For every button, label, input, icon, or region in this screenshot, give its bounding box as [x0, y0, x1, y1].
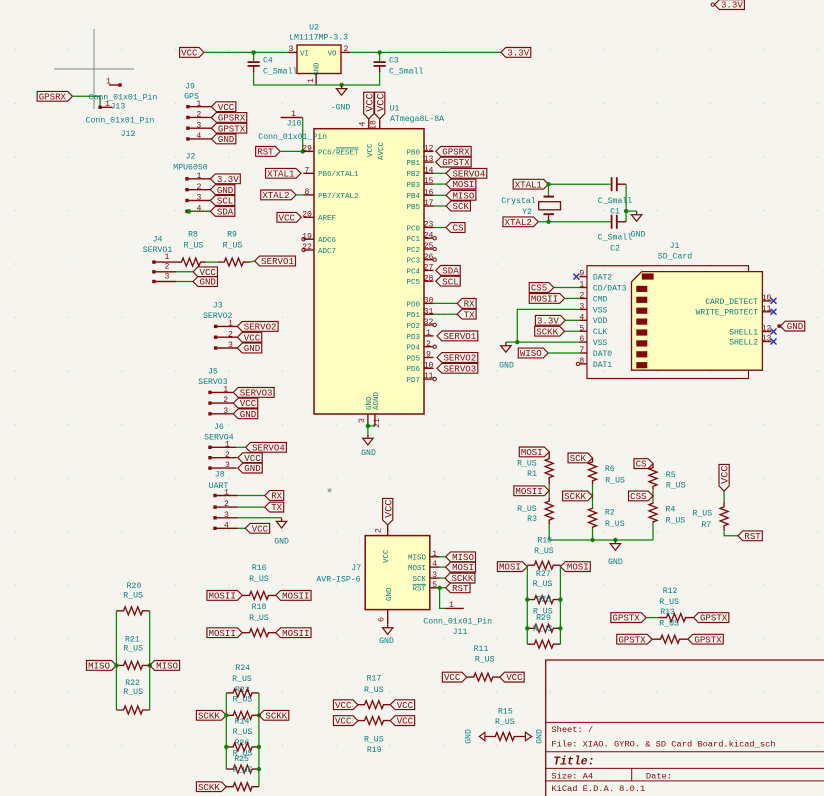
global label VCC (J5) [233, 398, 257, 409]
J2 pin 4 [185, 204, 211, 213]
svg-text:GPSRX: GPSRX [39, 91, 67, 102]
svg-text:R27: R27 [536, 570, 551, 579]
svg-text:PC5: PC5 [406, 279, 420, 287]
connector J2 reference [186, 153, 196, 162]
svg-text:CS5: CS5 [531, 283, 547, 294]
svg-text:R_US: R_US [249, 575, 269, 584]
global label MOSII (SD) [529, 294, 564, 305]
resistor R21 value [123, 645, 143, 654]
junction XTAL1 [546, 182, 550, 186]
svg-text:Conn_01x01_Pin: Conn_01x01_Pin [86, 115, 155, 125]
J5 pin 3 [208, 407, 233, 416]
connector J11 name [453, 628, 468, 637]
resistor R12 [659, 614, 694, 622]
resistor R8 [176, 231, 206, 267]
SD card outline box [587, 266, 749, 379]
resistor R10 value [534, 547, 554, 556]
U1 pin 17 PB5 [406, 199, 446, 212]
connector J12 value Conn_01x01_Pin [86, 115, 155, 125]
wire R5 to R4 [652, 490, 654, 502]
resistor R16 reference [252, 564, 267, 573]
U1 pin 30 PD0 [406, 297, 457, 310]
svg-text:PB1: PB1 [406, 160, 420, 168]
svg-text:8: 8 [305, 188, 310, 197]
U1 pin 14 PB2 [406, 166, 446, 179]
svg-text:19: 19 [302, 232, 312, 241]
global label VCC (R11 right) [500, 672, 524, 683]
svg-text:CS: CS [452, 223, 463, 234]
svg-text:MISO: MISO [156, 661, 178, 672]
J1 pin 7 DAT0 [579, 346, 612, 359]
svg-text:3: 3 [289, 45, 294, 54]
svg-text:R12: R12 [663, 587, 678, 596]
wire U2 gnd bus [254, 72, 380, 85]
wire pullup gnd bus [549, 539, 653, 541]
IC U1 reference [389, 104, 399, 113]
svg-text:GPSRX: GPSRX [218, 113, 246, 124]
svg-text:SCKK: SCKK [198, 710, 220, 721]
J7 pin 1 MISO [408, 550, 446, 563]
svg-text:Date:: Date: [646, 772, 672, 782]
global label MOSI (cluster right) [560, 562, 590, 573]
J6 pin 2 [208, 451, 236, 460]
svg-text:25: 25 [424, 242, 434, 251]
svg-text:1: 1 [228, 320, 233, 329]
svg-text:-GND: -GND [331, 104, 351, 113]
svg-text:MOSI: MOSI [452, 179, 474, 190]
ground symbol SD [501, 342, 511, 352]
global label MOSII (pullup) [514, 486, 549, 497]
U1 pin 4 VCC [359, 119, 376, 157]
resistor R17 [358, 701, 390, 709]
capacitor C4 [248, 52, 298, 76]
wire sckk left rail [225, 693, 227, 769]
svg-text:13: 13 [762, 335, 772, 344]
svg-text:16: 16 [424, 188, 434, 197]
svg-text:MOSII: MOSII [515, 486, 542, 497]
svg-text:3: 3 [432, 571, 437, 580]
svg-text:CS: CS [636, 459, 647, 470]
svg-text:R7: R7 [701, 521, 711, 530]
U1 pin 22 ADC7 [302, 243, 336, 256]
svg-text:R20: R20 [127, 582, 142, 591]
connector J13 value Conn_01x01_Pin [89, 93, 158, 103]
U1 pin 31 PD1 [406, 307, 457, 320]
svg-text:R_US: R_US [533, 625, 553, 634]
power label 3.3V (U2 output) [501, 48, 531, 59]
svg-text:SHELL2: SHELL2 [729, 338, 758, 347]
connector J13 name [111, 103, 126, 112]
svg-text:SDA: SDA [217, 206, 234, 217]
svg-text:GND: GND [240, 409, 256, 420]
resistor R26 value [233, 749, 253, 758]
U1 pin 21 AGND [373, 391, 382, 427]
global label MOSII (R16 right) [276, 591, 311, 602]
svg-text:PB0: PB0 [406, 149, 420, 157]
J5 pin 2 [208, 396, 233, 405]
svg-text:R_US: R_US [605, 520, 625, 529]
SD card body [632, 272, 763, 371]
J9 pin 1 [186, 100, 211, 109]
svg-text:4: 4 [196, 132, 201, 141]
resistor R22 value [123, 688, 143, 697]
svg-text:C4: C4 [263, 56, 273, 65]
ground text SD [499, 362, 514, 371]
svg-text:TX: TX [464, 309, 475, 320]
J1 pin 2 CMD [579, 292, 607, 305]
junction sckk l2 [224, 745, 228, 749]
U1 pin 3 GND [358, 396, 374, 426]
global label MISO (J7 MISO) [446, 552, 476, 563]
svg-text:R2: R2 [605, 509, 615, 518]
connector J4 reference [153, 236, 163, 245]
svg-text:WRITE_PROTECT: WRITE_PROTECT [696, 309, 759, 318]
connector J11 pin 1 [445, 601, 464, 610]
global label TX (U1 PD1) [457, 309, 476, 320]
svg-text:RX: RX [464, 299, 475, 310]
resistor R27 value [533, 580, 553, 589]
global label GND (SD shell) [778, 321, 805, 332]
global label VCC (R19 left) [333, 716, 357, 727]
power label 3.3V top-right [711, 0, 744, 11]
svg-text:GPSTX: GPSTX [618, 634, 646, 645]
svg-text:R_US: R_US [233, 696, 253, 705]
svg-text:3.3V: 3.3V [217, 174, 239, 185]
svg-text:RST: RST [744, 531, 761, 542]
resistor R24 value [232, 675, 252, 684]
connector J13 pin 1 [106, 78, 122, 87]
svg-text:SCK: SCK [412, 576, 426, 584]
svg-text:CSS: CSS [630, 491, 647, 502]
global label SCL (J2) [210, 196, 234, 207]
global label MOSI (pullup) [519, 447, 549, 458]
svg-text:R6: R6 [605, 465, 615, 474]
svg-text:1: 1 [307, 78, 316, 83]
svg-text:SERVO2: SERVO2 [244, 322, 277, 333]
svg-text:VCC: VCC [397, 716, 414, 727]
J1 pin 5 CLK [579, 324, 607, 337]
cursor crosshair [54, 29, 134, 109]
svg-text:R_US: R_US [666, 482, 686, 491]
wire XTAL1 to C1 [549, 183, 611, 185]
J1 pin 11 WRITE_PROTECT [696, 305, 777, 318]
svg-text:PC2: PC2 [406, 247, 420, 255]
resistor R11 value [475, 656, 495, 665]
J1 pin 3 VSS [579, 303, 607, 316]
global label MOSII (R16 left) [207, 591, 242, 602]
svg-text:27: 27 [424, 264, 434, 273]
svg-text:18: 18 [369, 120, 378, 130]
global label VCC (U1 AREF) [277, 212, 301, 223]
wire to crystal gnd [626, 210, 637, 212]
IC U1 value ATmega8L-8A [390, 115, 444, 124]
svg-text:R17: R17 [367, 675, 382, 684]
J6 pin 3 [208, 461, 236, 470]
global label RST (R7) [738, 531, 762, 542]
global label GND (R15 left) [465, 729, 490, 744]
svg-text:R22: R22 [125, 679, 140, 688]
svg-text:R_US: R_US [517, 505, 537, 514]
svg-text:PD0: PD0 [406, 301, 420, 309]
svg-text:DAT0: DAT0 [593, 350, 612, 359]
svg-text:RST: RST [412, 586, 426, 594]
U1 pin 2 PD4 [406, 340, 436, 353]
svg-text:4: 4 [197, 204, 202, 213]
resistor R18 reference [252, 603, 267, 612]
svg-text:17: 17 [424, 199, 434, 208]
svg-text:VCC: VCC [397, 700, 414, 711]
svg-text:GND: GND [379, 637, 394, 646]
resistor R16 value [249, 575, 269, 584]
svg-text:6: 6 [579, 335, 584, 344]
resistor R26 reference [235, 739, 250, 748]
junction mosi r2 [558, 626, 562, 630]
connector J10 name [287, 119, 302, 128]
U1 pin 28 PC5 [406, 274, 433, 287]
IC U1 body [314, 129, 424, 414]
wire J7 RST to J11 [440, 588, 445, 609]
svg-text:SERVO1: SERVO1 [443, 331, 476, 342]
global label SCKK (J7 SCK) [445, 573, 475, 584]
svg-text:VSS: VSS [593, 339, 608, 348]
global label GPSTX (J9) [211, 123, 246, 134]
wire R4 to bus [652, 523, 654, 540]
connector J8 value UART [209, 482, 229, 491]
svg-text:TX: TX [271, 502, 282, 513]
svg-text:VCC: VCC [279, 212, 296, 223]
svg-text:6: 6 [377, 617, 386, 622]
svg-text:Conn_01x01_Pin: Conn_01x01_Pin [258, 132, 327, 142]
connector J6 value SERVO4 [204, 434, 234, 443]
resistor R5 [649, 464, 686, 491]
svg-text:R5: R5 [666, 471, 676, 480]
svg-text:MISO: MISO [452, 190, 474, 201]
svg-text:1: 1 [106, 78, 111, 87]
svg-text:J13: J13 [111, 103, 126, 112]
svg-text:1: 1 [223, 386, 228, 395]
svg-text:Y2: Y2 [522, 208, 532, 217]
svg-text:GND: GND [465, 729, 474, 744]
capacitor C3 [374, 52, 424, 76]
global label VCC (J4) [193, 267, 217, 278]
svg-text:MISO: MISO [88, 661, 110, 672]
resistor R13 value [659, 619, 679, 628]
svg-text:3.3V: 3.3V [507, 48, 529, 59]
svg-text:J5: J5 [208, 368, 218, 377]
svg-text:1: 1 [449, 601, 454, 610]
svg-text:1: 1 [105, 100, 110, 109]
J7 pin 4 MOSI [408, 560, 446, 573]
resistor R14 reference [235, 717, 250, 726]
svg-text:GND: GND [787, 321, 803, 332]
connector J5 reference [208, 368, 218, 377]
svg-text:VCC: VCC [721, 466, 732, 484]
svg-text:SCK: SCK [452, 201, 469, 212]
connector J9 value GPS [184, 93, 199, 102]
junction bus R2 [590, 538, 594, 542]
svg-text:10: 10 [424, 361, 434, 370]
svg-text:C_Small: C_Small [389, 66, 423, 76]
svg-text:XTAL1: XTAL1 [515, 179, 543, 190]
svg-text:SCK: SCK [570, 453, 587, 464]
svg-text:U1: U1 [389, 104, 399, 113]
resistor R11 reference [474, 645, 489, 654]
svg-text:J6: J6 [214, 423, 224, 432]
global label SERVO2 (J3) [237, 322, 278, 333]
J1 pin 4 VDD [579, 313, 607, 326]
svg-text:J11: J11 [453, 628, 468, 637]
U1 pin 9 PD5 [406, 351, 433, 364]
global label SERVO4 (J6) [246, 442, 287, 453]
J1 pin 13 SHELL2 [729, 335, 776, 348]
svg-text:CARD_DETECT: CARD_DETECT [705, 298, 758, 307]
title block kicad text [551, 784, 645, 794]
svg-text:R_US: R_US [659, 598, 679, 607]
svg-text:J7: J7 [351, 564, 361, 573]
svg-text:GND: GND [244, 343, 260, 354]
svg-text:3: 3 [228, 341, 233, 350]
junction miso r [148, 663, 152, 667]
global label CS (U1 PC0) [446, 223, 465, 234]
J1 pin 1 CD/DAT3 [579, 281, 626, 294]
J8 pin 4 [213, 521, 245, 530]
svg-text:GND: GND [314, 63, 322, 76]
global label GPSRX (J13) [37, 91, 72, 102]
svg-text:MOSI: MOSI [452, 562, 474, 573]
svg-text:GND: GND [217, 185, 233, 196]
global label MISO (U1 PB4) [446, 190, 476, 201]
svg-text:MOSI: MOSI [499, 562, 521, 573]
svg-text:R_US: R_US [184, 242, 204, 251]
svg-text:U2: U2 [309, 24, 319, 33]
wire U2 VO to 3.3V [350, 51, 501, 53]
resistor R17 value [364, 686, 384, 695]
global label VCC (J8) [245, 523, 269, 534]
title block size text [551, 772, 593, 782]
svg-text:SDA: SDA [442, 266, 459, 277]
svg-text:KiCad E.D.A. 8.0.1: KiCad E.D.A. 8.0.1 [551, 784, 645, 794]
junction RST wire [301, 149, 305, 153]
svg-text:R_US: R_US [692, 510, 712, 519]
svg-text:SERVO3: SERVO3 [443, 363, 476, 374]
junction sckk r2 [257, 745, 261, 749]
svg-text:R_US: R_US [475, 656, 495, 665]
regulator U2 reference [309, 24, 319, 33]
J9 pin 3 [186, 121, 211, 130]
U1 pin 12 PB0 [406, 145, 433, 158]
svg-text:Size: A4: Size: A4 [551, 772, 593, 782]
svg-text:1: 1 [291, 110, 296, 119]
svg-text:23: 23 [424, 221, 434, 230]
svg-text:C2: C2 [610, 245, 620, 254]
resistor R15 value [495, 718, 515, 727]
resistor R23 [226, 689, 259, 697]
svg-text:9: 9 [426, 351, 431, 360]
svg-text:SERVO1: SERVO1 [261, 256, 294, 267]
svg-text:R_US: R_US [123, 645, 143, 654]
global label SCL (U1 PC5) [436, 276, 460, 287]
ground symbol pullups [610, 540, 620, 550]
J4 pin 2 [152, 263, 193, 274]
svg-text:VCC: VCC [335, 700, 352, 711]
J1 pin 6 VSS [579, 335, 607, 348]
svg-text:VSS: VSS [593, 306, 608, 315]
ground text -GND [331, 104, 351, 113]
ground text J7 [379, 637, 394, 646]
svg-text:R_US: R_US [533, 580, 553, 589]
global label VCC (J3) [237, 332, 261, 343]
resistor R2 [589, 507, 625, 529]
svg-text:ADC6: ADC6 [318, 237, 337, 245]
J9 pin 2 [186, 111, 211, 120]
svg-text:File: XIAO. GYRO. & SD Card Bo: File: XIAO. GYRO. & SD Card Board.kicad_… [551, 739, 775, 749]
svg-text:20: 20 [302, 210, 312, 219]
svg-text:R4: R4 [665, 506, 675, 515]
svg-text:SERVO3: SERVO3 [240, 388, 273, 399]
svg-text:5: 5 [579, 324, 584, 333]
J1 pin 10 CARD_DETECT [705, 294, 776, 307]
regulator U2 value LM1117MP-3.3 [289, 34, 348, 43]
global label SERVO3 (J5) [233, 388, 274, 399]
svg-text:5: 5 [432, 581, 437, 590]
J8 pin 1 [213, 489, 264, 498]
svg-text:3: 3 [579, 303, 584, 312]
U1 pin 16 PB4 [406, 188, 446, 201]
svg-text:R9: R9 [227, 231, 237, 240]
global label SDA (U1 PC4) [436, 266, 460, 277]
wire mosi right rail [559, 565, 561, 644]
resistor R25 [226, 765, 259, 773]
svg-text:31: 31 [424, 307, 434, 316]
resistor R18 value [249, 614, 269, 623]
resistor R24 reference [235, 664, 250, 673]
svg-text:8: 8 [579, 357, 584, 366]
wire miso left rail [115, 611, 117, 710]
SD card contacts [636, 273, 653, 368]
global label VCC (J9) [211, 102, 235, 113]
junction SD VSS [515, 340, 519, 344]
svg-text:2: 2 [196, 111, 201, 120]
svg-text:GPSTX: GPSTX [612, 613, 640, 624]
svg-text:GPSTX: GPSTX [218, 123, 246, 134]
junction mosi l2 [525, 626, 529, 630]
global label CS (pullup) [634, 459, 653, 470]
svg-text:2: 2 [228, 330, 233, 339]
resistor R28 reference [537, 596, 552, 605]
global label CSS (pullup) [629, 491, 653, 502]
svg-text:11: 11 [762, 305, 772, 314]
svg-text:PC6/RESET: PC6/RESET [318, 149, 359, 157]
svg-text:3: 3 [196, 121, 201, 130]
wire R2 to bus [592, 528, 594, 540]
svg-text:R14: R14 [235, 717, 250, 726]
svg-text:MOSII: MOSII [209, 628, 236, 639]
U1 pin 23 PC0 [406, 221, 446, 234]
global label GPSRX (U1 PB0) [436, 147, 471, 158]
global label SCKK (cluster left) [196, 710, 226, 721]
global label SDA (J2) [210, 206, 234, 217]
global label SERVO4 (U1 PB2) [446, 168, 487, 179]
resistor R15 reference [498, 708, 513, 717]
svg-text:R_US: R_US [249, 614, 269, 623]
svg-text:3.3V: 3.3V [537, 315, 559, 326]
svg-text:9: 9 [579, 270, 584, 279]
svg-text:R10: R10 [537, 536, 552, 545]
global label GPSTX (R13 left) [617, 634, 652, 645]
svg-text:SCKK: SCKK [536, 326, 558, 337]
svg-text:R29: R29 [536, 614, 551, 623]
global label VCC (R11 left) [442, 672, 466, 683]
